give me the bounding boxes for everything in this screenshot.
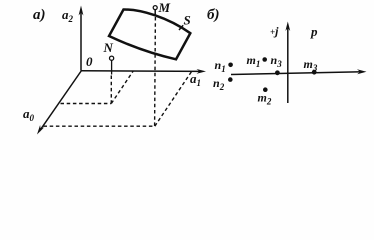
dashed line M-projection to a1 axis: [155, 72, 192, 127]
svg-text:0: 0: [86, 54, 93, 69]
real axis (horizontal) of p-plane: [231, 69, 367, 74]
dashed line M-projection to a0 axis: [44, 125, 155, 127]
svg-text:S: S: [184, 13, 191, 28]
svg-text:а): а): [33, 7, 46, 23]
dashed line N-projection to a1 axis: [111, 71, 133, 103]
label +j: [270, 24, 279, 38]
label M: [158, 0, 171, 15]
svg-text:N: N: [103, 40, 114, 55]
point m3 (on axis): [312, 70, 317, 75]
leader line from N to a1 axis: [111, 60, 113, 74]
dashed projection line from M down: [154, 17, 157, 126]
surface S outline: [109, 9, 190, 59]
point m2: [263, 87, 268, 92]
tick on edge near S: [179, 25, 183, 30]
svg-text:+j: +j: [270, 24, 279, 38]
svg-text:p: p: [310, 24, 318, 39]
label N: [103, 40, 114, 55]
label m3: [304, 57, 318, 73]
point n1: [228, 63, 233, 68]
svg-text:M: M: [158, 0, 171, 15]
label n3: [271, 53, 283, 69]
point M (open circle with stem): [153, 6, 157, 16]
label a): [33, 7, 46, 23]
label S: [184, 13, 191, 28]
label n1: [215, 58, 226, 74]
dashed projection line from N down: [110, 76, 112, 104]
point n2: [228, 77, 233, 82]
point N (open circle): [110, 56, 114, 60]
background paper: [0, 0, 374, 145]
label n2: [213, 76, 225, 92]
axis a2 (vertical): [62, 6, 83, 71]
axis a0 (diagonal to lower-left): [23, 71, 82, 135]
label m2: [258, 91, 272, 107]
axis a1 (horizontal): [81, 69, 206, 88]
origin label 0: [86, 54, 93, 69]
point m1: [262, 57, 267, 62]
label p: [310, 24, 318, 39]
imaginary axis +j (vertical) of p-plane: [285, 22, 290, 104]
label m1: [247, 53, 261, 69]
dashed line N-projection to a0 axis: [61, 103, 112, 105]
label b): [207, 7, 219, 23]
svg-text:б): б): [207, 7, 219, 23]
point n3 (on axis): [275, 70, 280, 75]
